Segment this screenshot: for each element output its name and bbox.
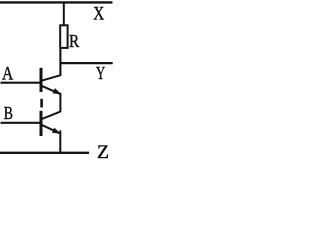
svg-text:R: R [69, 31, 79, 51]
wire Q2 emitter to bottom rail [59, 130, 61, 153]
svg-text:Y: Y [96, 63, 105, 83]
svg-text:X: X [93, 4, 104, 25]
wire output rail Y [59, 62, 112, 64]
transistor Q2 base bar upper dash [40, 99, 43, 108]
transistor Q2 collector diagonal [42, 112, 60, 119]
transistor Q1 emitter diagonal [42, 86, 60, 94]
wire input A [1, 82, 41, 84]
wire bottom rail Z [0, 152, 89, 154]
transistor Q2 emitter arrowhead [52, 128, 61, 134]
transistor Q2 base bar [40, 111, 43, 136]
svg-text:A: A [2, 63, 14, 84]
transistor Q2 emitter diagonal [42, 125, 60, 133]
transistor Q1 emitter arrowhead [53, 88, 62, 94]
wire input B [1, 122, 41, 124]
svg-text:B: B [4, 103, 13, 123]
wire top supply rail X [0, 1, 113, 3]
transistor Q1 collector diagonal [42, 75, 61, 81]
svg-text:Z: Z [97, 143, 109, 163]
transistor Q1 base bar [40, 68, 43, 92]
resistor R [60, 25, 67, 48]
wire from top rail to resistor [63, 2, 65, 26]
wire Q1 emitter to Q2 collector [59, 93, 61, 112]
wire from resistor to Y node [59, 48, 61, 76]
